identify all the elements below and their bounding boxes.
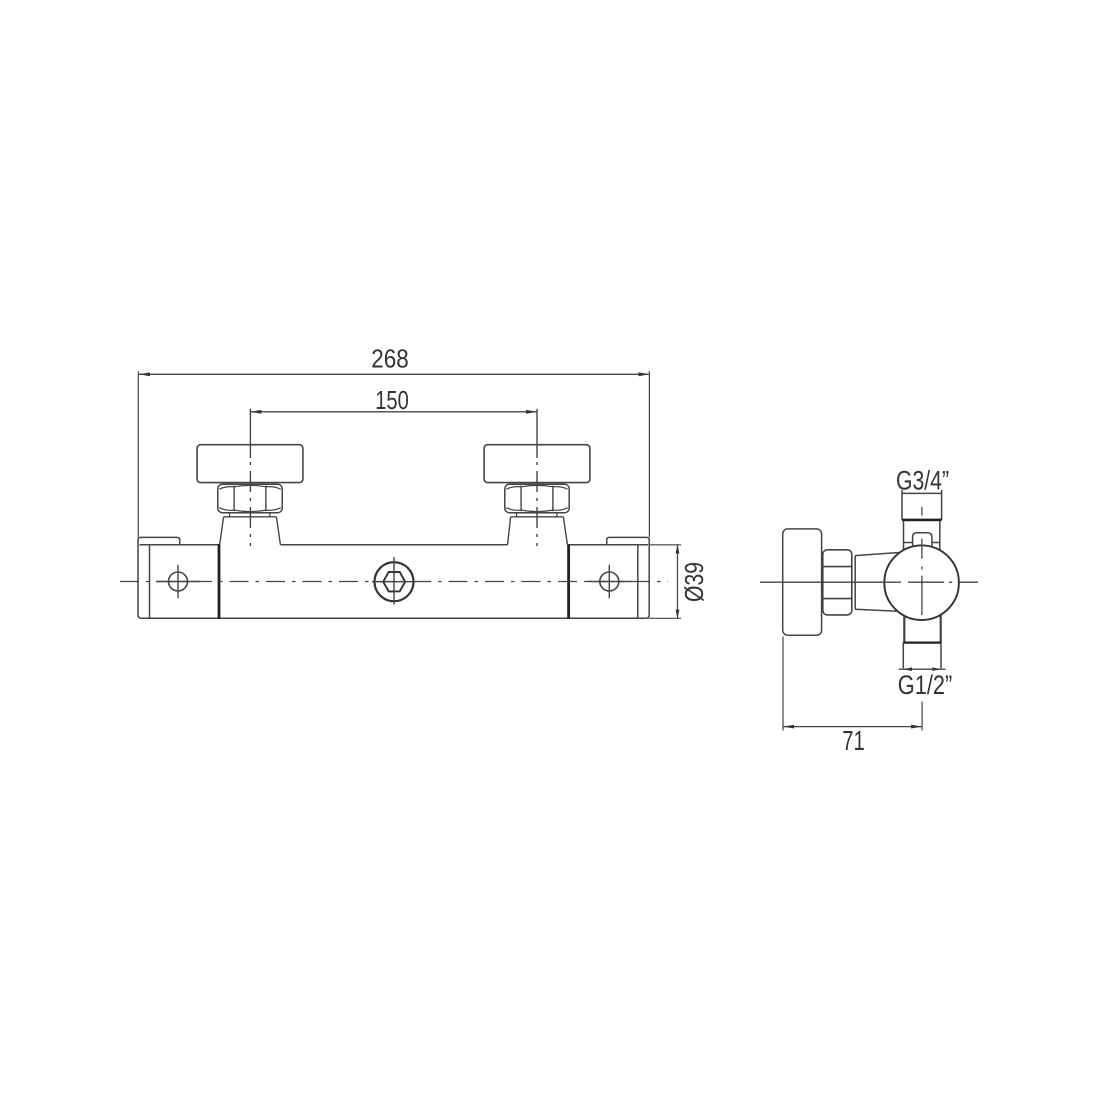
svg-text:G1/2”: G1/2”: [898, 670, 953, 700]
svg-text:71: 71: [842, 725, 865, 756]
svg-text:150: 150: [375, 387, 409, 415]
svg-text:Ø39: Ø39: [679, 562, 709, 602]
svg-text:268: 268: [371, 346, 409, 374]
svg-text:G3/4”: G3/4”: [896, 466, 949, 496]
